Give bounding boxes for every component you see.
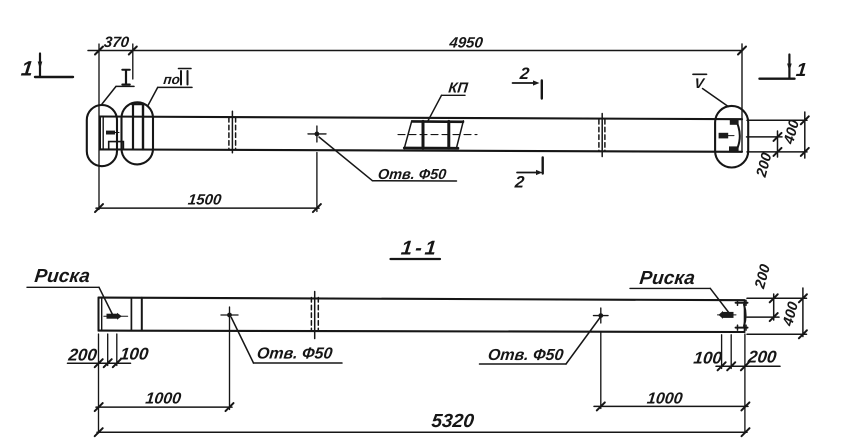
dimension 200 / 100 (left) [67,345,150,368]
svg-text:2: 2 [513,173,526,192]
svg-text:Отв. Ф50: Отв. Ф50 [487,346,564,364]
dimension 5320 [95,411,750,436]
joint lines at x=232 (plan) [229,111,236,153]
section marker 1 (top right) [760,55,808,81]
beam left end plate lines (section) [98,298,100,331]
svg-text:1000: 1000 [145,390,183,408]
extension lines below beam right (section dims 100/200) [721,335,723,369]
right side dims of plan view (400 / 200) [747,112,809,180]
svg-text:100: 100 [693,349,724,368]
riska mark left (plan) [106,131,115,135]
beam outline (plan view) top edge [100,117,743,120]
end bracket marks (plan, right) [719,119,740,151]
svg-text:200: 200 [752,263,774,291]
leader and label Отв. Ф50 (section left) [231,318,342,364]
hole 1 (section) center cross [221,307,238,324]
extension from hole 1 down to 1000 dim [229,324,231,410]
svg-text:200: 200 [746,348,778,367]
svg-text:100: 100 [119,345,150,364]
svg-text:Отв. Ф50: Отв. Ф50 [377,167,447,183]
svg-text:1: 1 [795,60,808,81]
strap по II (plan): two verticals with top cap [132,104,134,150]
tick at x=742 [738,47,746,55]
right side dims of section view (200 / 400) [747,263,807,339]
extension line left end (through detail I, to 1500 dim) [98,44,100,210]
leader and label Отв. Ф50 (section right) [480,317,601,365]
notch at left end (plan) [109,142,124,150]
beam right end line (section) [744,300,746,332]
label V with leader [693,74,728,106]
svg-text:400: 400 [781,118,803,146]
dimension 1000 (right) [594,390,749,411]
leader and label Отв. Ф50 (plan) [319,137,457,183]
label Риска (left) with leader [27,266,113,314]
tick at x=132.8 [129,47,137,55]
svg-text:2: 2 [518,64,531,83]
hole Отв.Ф50 (plan) center cross [308,126,326,142]
detail circle II (second stadium) [122,102,154,164]
dimension 100 / 200 (right) [693,348,780,371]
svg-text:200: 200 [67,346,99,365]
svg-text:1000: 1000 [646,390,684,408]
strap lines left (section) [130,298,132,331]
svg-text:5320: 5320 [430,411,475,432]
svg-text:по: по [163,72,181,87]
joint lines at x=315 (section) [311,292,318,339]
embed plate КП (plan) [398,121,477,149]
svg-text:1: 1 [20,58,34,81]
riska mark left (section) [104,313,128,320]
end bracket (section right) [736,300,748,330]
extension from hole 2 down to 1000 dim [600,333,602,409]
svg-text:1500: 1500 [187,192,223,209]
svg-text:370: 370 [103,34,130,51]
svg-text:Отв. Ф50: Отв. Ф50 [256,345,333,363]
beam outline (section 1-1) bottom edge [99,331,745,332]
extension from hole down to 1500 dim [316,153,318,212]
label по II with leader [148,69,193,107]
label I with leader [102,70,134,104]
joint lines at x=602 (plan) [599,114,605,157]
section marker 1 (top left) [20,54,73,81]
beam left end plate lines [99,117,101,150]
svg-text:Риска: Риска [33,266,91,287]
riska mark right (section) [718,311,737,319]
detail circle V (right stadium) [715,106,748,168]
svg-text:V: V [694,75,707,91]
section marker 2 (bottom) [513,158,543,192]
beam outline (plan view) bottom edge [100,149,743,151]
label Риска (right) with leader [630,268,730,313]
dimension 1000 (left) [95,390,234,412]
hole 2 (section) center cross [594,308,609,323]
svg-text:1-1: 1-1 [400,238,440,260]
detail circle I (left stadium) [87,105,117,166]
extension line 370 right [132,44,134,79]
dimension line top (370 / 4950) [88,50,743,52]
title 1-1 [391,238,441,260]
svg-text:Риска: Риска [638,268,696,289]
svg-text:КП: КП [448,81,470,97]
svg-text:400: 400 [780,300,802,328]
extension lines below beam left (section dims 200/100) [98,334,100,433]
dimension 1500 [95,192,321,213]
svg-text:200: 200 [754,151,776,179]
tick at x=99 [95,47,103,55]
extension / beam right end line [741,44,743,152]
section marker 2 (top) [513,64,542,98]
label КП with leader [428,81,469,122]
beam outline (section 1-1) top edge [99,298,745,301]
svg-text:4950: 4950 [448,35,485,52]
